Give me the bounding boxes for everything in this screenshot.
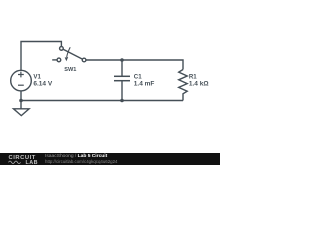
svg-text:C1: C1 — [134, 73, 142, 80]
svg-text:6.14 V: 6.14 V — [33, 80, 52, 87]
svg-text:SW1: SW1 — [64, 67, 76, 73]
svg-text:1.4 kΩ: 1.4 kΩ — [189, 80, 209, 87]
svg-text:LAB: LAB — [26, 160, 39, 165]
svg-text:1.4 mF: 1.4 mF — [134, 80, 155, 87]
svg-text:R1: R1 — [189, 73, 197, 80]
svg-text:V1: V1 — [33, 73, 41, 80]
